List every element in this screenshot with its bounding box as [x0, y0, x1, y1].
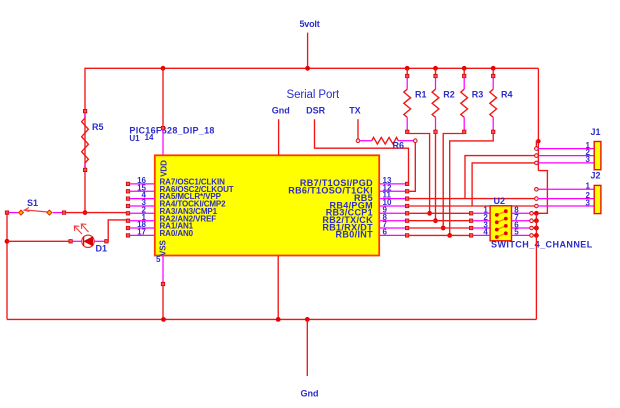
U2 left pin numbers: [483, 206, 488, 237]
wire VSS to bottom bus: [162, 286, 164, 320]
LED D1: [69, 224, 108, 254]
svg-text:S1: S1: [27, 198, 38, 208]
resistor R3: [461, 68, 484, 133]
junction R4 on RB0: [447, 233, 452, 238]
wire RB4 branch up to J1 pin3: [472, 163, 536, 206]
junction bus at R4: [491, 66, 496, 71]
wire D1 cathode up to RA2 pin: [108, 220, 126, 241]
wire U1 bottom to Gnd bus: [277, 256, 279, 320]
junction 5V rail to J1 pin1: [536, 139, 540, 143]
wire left rail to D1 anode: [7, 240, 69, 242]
svg-text:4: 4: [483, 228, 488, 237]
svg-text:3: 3: [586, 155, 591, 164]
connector J1 body: [594, 142, 601, 170]
junction on bus at 5volt: [305, 66, 310, 71]
svg-text:5: 5: [156, 255, 161, 264]
wire top 5V bus: [85, 68, 538, 212]
junction bus at R3: [462, 66, 467, 71]
wire TX down to R6: [357, 119, 359, 139]
svg-text:DSR: DSR: [306, 106, 326, 116]
wire serial Gnd down to U1 top: [278, 119, 280, 155]
svg-text:U1: U1: [129, 134, 140, 143]
junction S1 row meets R5 column: [83, 210, 88, 215]
junction bus at R1: [405, 66, 410, 71]
svg-text:U2: U2: [494, 196, 506, 206]
wire S1 to RA3 pin: [66, 212, 127, 214]
svg-text:TX: TX: [349, 106, 361, 116]
U2 left pins: [469, 212, 490, 237]
svg-text:3: 3: [586, 198, 591, 207]
switch U2 body: [490, 206, 511, 241]
junction R1 on RB3: [427, 211, 432, 216]
svg-text:Gnd: Gnd: [301, 389, 319, 399]
wire RB0 row to U2 pin4: [409, 234, 470, 236]
U1 left pin names: [160, 178, 234, 239]
wire R6 to RB6: [409, 143, 416, 192]
svg-text:R6: R6: [393, 141, 405, 151]
pin VDD stub: [161, 126, 164, 129]
svg-text:14: 14: [145, 133, 154, 142]
wire R1 to RB3 row: [407, 134, 429, 214]
J2 pin numbers: [586, 182, 591, 208]
wire bottom ground bus: [7, 318, 536, 320]
U2 right pin numbers: [514, 206, 519, 237]
U1 left pin numbers: [137, 176, 146, 237]
U1 right pin names: [288, 178, 373, 240]
junction bus at U1 bottom: [276, 317, 281, 322]
wire RB5 branch up to J1 pin2: [465, 156, 536, 199]
pin VSS stub: [162, 256, 164, 283]
junction on bus at U1 VDD: [161, 66, 166, 71]
junction left rail at D1 row: [5, 239, 10, 244]
wire left rail S1 down to bottom bus: [6, 213, 8, 320]
U2 right pins to ground rail: [512, 212, 537, 238]
switch S1: [5, 198, 65, 215]
op-amp U1 body PIC16F628_DIP_18: [155, 155, 379, 255]
wire RB5 row to J2 pin2: [409, 198, 537, 200]
wire ground rail down to bottom bus: [535, 213, 537, 319]
svg-text:R1: R1: [415, 90, 427, 100]
U1 left pins: [126, 182, 155, 237]
junction bus at VSS: [161, 317, 166, 322]
svg-text:5volt: 5volt: [300, 19, 320, 29]
wire 5V jog down to ground rail join: [538, 171, 547, 214]
resistor R4: [490, 68, 513, 133]
svg-text:R3: R3: [472, 90, 484, 100]
wire RB3 row to U2 pin1: [409, 212, 470, 214]
svg-text:J2: J2: [591, 171, 601, 181]
connector J1 pins: [535, 147, 595, 165]
wire R2 to RB2 row: [435, 134, 437, 221]
svg-text:VSS: VSS: [159, 240, 168, 256]
junctions on ground rail at U2 pins: [534, 211, 539, 238]
J1 pin numbers: [586, 141, 591, 164]
svg-text:1: 1: [586, 182, 591, 191]
svg-text:Serial Port: Serial Port: [287, 89, 340, 101]
wire branch to J1 pin1: [536, 141, 538, 147]
U1 right pins: [379, 182, 409, 237]
svg-text:J1: J1: [591, 127, 601, 137]
wire Gnd stub: [306, 319, 308, 376]
junction bus at R2: [433, 66, 438, 71]
junction R3 on RB1: [441, 226, 446, 231]
wire RB2 row to U2 pin2: [409, 220, 470, 222]
svg-text:SWITCH_4_CHANNEL: SWITCH_4_CHANNEL: [491, 240, 593, 250]
wire R3 to RB1 row: [443, 134, 464, 229]
svg-text:17: 17: [137, 228, 146, 237]
svg-text:R5: R5: [92, 122, 104, 132]
junction R2 on RB2: [433, 218, 438, 223]
U1 right pin numbers: [383, 176, 392, 237]
wire RB4 row to J2 pin3: [409, 205, 537, 207]
wire 5volt vertical: [307, 33, 309, 69]
svg-text:VDD: VDD: [160, 160, 169, 177]
wire RB1 row to U2 pin3: [409, 227, 470, 229]
svg-text:RA0/AN0: RA0/AN0: [160, 229, 194, 238]
connector J2 body: [594, 185, 601, 213]
U2 switch contacts: [497, 211, 506, 237]
resistor R1: [404, 68, 427, 133]
resistor R2: [432, 68, 455, 133]
svg-text:R4: R4: [501, 90, 513, 100]
wire DSR to RB7: [315, 119, 409, 182]
svg-text:R2: R2: [443, 90, 455, 100]
wire 5V rail down right side: [537, 68, 539, 170]
connector J2 pins: [535, 188, 595, 208]
resistor R5: [82, 109, 104, 171]
svg-text:PIC16F628_DIP_18: PIC16F628_DIP_18: [129, 126, 214, 136]
svg-text:RB0/INT: RB0/INT: [336, 230, 374, 240]
wire R4 to RB0 row: [450, 134, 494, 236]
resistor R6: [356, 137, 417, 150]
junction bus at Gnd stub: [305, 317, 310, 322]
wire bus to VDD pin: [162, 68, 164, 126]
svg-text:D1: D1: [96, 244, 108, 254]
svg-text:Gnd: Gnd: [272, 106, 290, 116]
